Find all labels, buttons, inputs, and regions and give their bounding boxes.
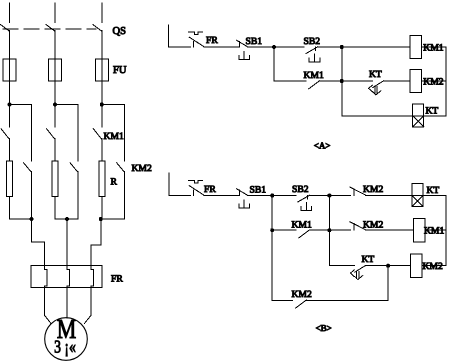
svg-text:FU: FU bbox=[113, 65, 127, 76]
svg-text:R: R bbox=[111, 177, 118, 188]
svg-text:<B>: <B> bbox=[316, 323, 332, 333]
svg-text:KM1: KM1 bbox=[424, 226, 444, 237]
svg-text:KM2: KM2 bbox=[423, 261, 443, 272]
svg-text:SB1: SB1 bbox=[246, 36, 263, 47]
svg-text:SB1: SB1 bbox=[250, 185, 267, 196]
svg-text:KT: KT bbox=[427, 185, 440, 196]
svg-text:FR: FR bbox=[204, 184, 216, 195]
svg-text:SB2: SB2 bbox=[292, 184, 309, 195]
svg-text:KM1: KM1 bbox=[104, 131, 124, 142]
svg-text:FR: FR bbox=[111, 274, 123, 285]
svg-text:<A>: <A> bbox=[314, 141, 331, 151]
svg-text:KM2: KM2 bbox=[292, 289, 312, 300]
svg-text:KM2: KM2 bbox=[363, 184, 383, 195]
svg-text:FR: FR bbox=[206, 35, 218, 46]
svg-text:3 ¡«: 3 ¡« bbox=[54, 337, 76, 357]
svg-text:KM2: KM2 bbox=[132, 163, 152, 174]
svg-text:KT: KT bbox=[369, 69, 382, 80]
svg-text:KM1: KM1 bbox=[304, 70, 324, 81]
svg-text:SB2: SB2 bbox=[304, 36, 321, 47]
svg-text:KM2: KM2 bbox=[423, 77, 443, 88]
svg-text:KM2: KM2 bbox=[363, 220, 383, 231]
svg-text:KT: KT bbox=[426, 105, 439, 116]
svg-text:QS: QS bbox=[113, 26, 127, 37]
svg-text:KT: KT bbox=[362, 254, 375, 265]
svg-text:KM1: KM1 bbox=[292, 220, 312, 231]
svg-text:KM1: KM1 bbox=[423, 43, 443, 54]
